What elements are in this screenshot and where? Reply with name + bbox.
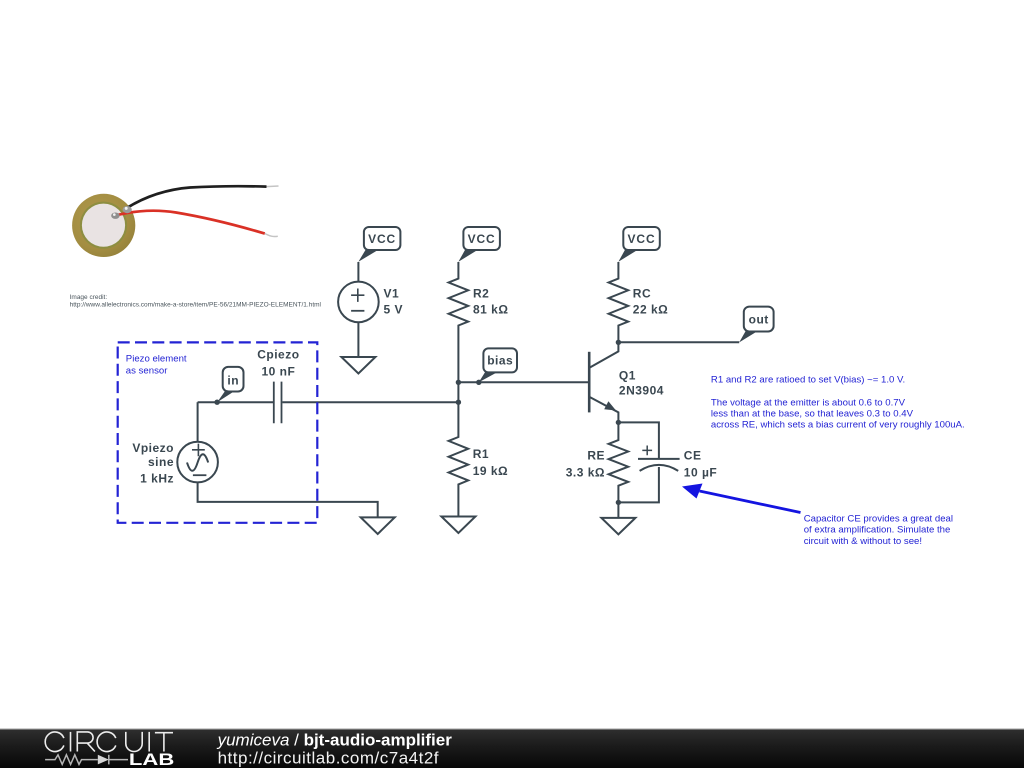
svg-text:out: out <box>749 312 769 326</box>
svg-text:R1: R1 <box>473 447 489 461</box>
svg-text:VCC: VCC <box>627 232 655 246</box>
svg-text:3.3 kΩ: 3.3 kΩ <box>566 465 605 479</box>
svg-text:Vpiezo: Vpiezo <box>132 441 174 455</box>
svg-text:less than at the base, so that: less than at the base, so that leaves 0.… <box>711 409 914 420</box>
svg-text:LAB: LAB <box>129 750 174 768</box>
svg-text:22 kΩ: 22 kΩ <box>633 303 668 317</box>
svg-text:yumiceva / bjt-audio-amplifier: yumiceva / bjt-audio-amplifier <box>217 730 453 749</box>
svg-text:bias: bias <box>487 354 513 368</box>
svg-text:R2: R2 <box>473 286 489 300</box>
svg-text:19 kΩ: 19 kΩ <box>473 464 508 478</box>
svg-text:5 V: 5 V <box>384 303 404 317</box>
svg-text:RE: RE <box>587 449 605 463</box>
svg-text:http://www.allelectronics.com/: http://www.allelectronics.com/make-a-sto… <box>70 302 322 309</box>
svg-text:Cpiezo: Cpiezo <box>257 348 299 362</box>
svg-text:RC: RC <box>633 286 651 300</box>
svg-text:1 kHz: 1 kHz <box>140 471 174 485</box>
svg-text:2N3904: 2N3904 <box>619 384 664 398</box>
svg-text:Capacitor CE provides a great: Capacitor CE provides a great deal <box>804 513 953 524</box>
svg-text:sine: sine <box>148 455 174 469</box>
svg-text:VCC: VCC <box>468 232 496 246</box>
svg-text:Q1: Q1 <box>619 368 636 382</box>
svg-text:Piezo element: Piezo element <box>126 354 187 365</box>
svg-text:circuit with & without to see!: circuit with & without to see! <box>804 536 922 547</box>
svg-text:across RE, which sets a bias c: across RE, which sets a bias current of … <box>711 420 965 431</box>
svg-text:of extra amplification. Simula: of extra amplification. Simulate the <box>804 525 951 536</box>
svg-text:81 kΩ: 81 kΩ <box>473 303 508 317</box>
svg-text:10 µF: 10 µF <box>684 465 717 479</box>
svg-text:10 nF: 10 nF <box>261 364 295 378</box>
svg-text:The voltage at the emitter is: The voltage at the emitter is about 0.6 … <box>711 398 906 409</box>
svg-text:http://circuitlab.com/c7a4t2f: http://circuitlab.com/c7a4t2f <box>218 748 439 767</box>
svg-text:in: in <box>227 373 239 387</box>
svg-text:R1 and R2 are ratioed to set V: R1 and R2 are ratioed to set V(bias) ~= … <box>711 374 905 385</box>
svg-text:VCC: VCC <box>368 232 396 246</box>
svg-text:as sensor: as sensor <box>126 365 168 376</box>
svg-text:Image credit:: Image credit: <box>70 294 108 301</box>
svg-text:V1: V1 <box>384 286 400 300</box>
svg-text:CE: CE <box>684 449 702 463</box>
